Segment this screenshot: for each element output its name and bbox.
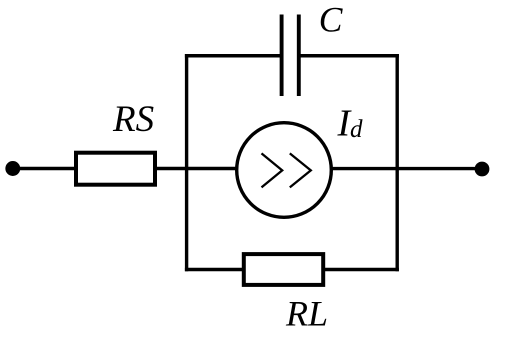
- wire current source to right terminal: [330, 167, 482, 170]
- wire left terminal to RS: [13, 167, 78, 170]
- svg-text:d: d: [350, 116, 363, 143]
- right terminal node: [475, 162, 490, 177]
- top wire left segment: [185, 54, 282, 57]
- svg-text:RS: RS: [112, 99, 154, 140]
- svg-text:RL: RL: [285, 293, 328, 333]
- current source Id: [237, 123, 332, 218]
- bottom wire left segment: [185, 268, 245, 271]
- current source chevron 2: [290, 153, 311, 187]
- left terminal node: [5, 161, 20, 176]
- top wire right segment: [299, 54, 399, 57]
- left rail wire: [185, 54, 188, 271]
- right rail wire: [396, 54, 399, 271]
- current source chevron 1: [262, 153, 283, 187]
- resistor RS: [76, 153, 155, 185]
- capacitor C left plate: [280, 15, 284, 97]
- bottom wire right segment: [324, 268, 399, 271]
- resistor RL: [244, 254, 323, 285]
- wire RS to current source: [157, 167, 240, 170]
- capacitor C right plate: [297, 15, 301, 97]
- svg-text:C: C: [319, 0, 343, 40]
